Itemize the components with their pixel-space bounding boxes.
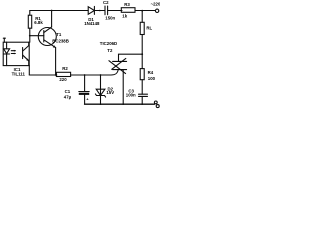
svg-text:R3: R3: [124, 2, 130, 7]
wire T1 emitter: [44, 40, 56, 48]
wire top rail left segment: [30, 11, 88, 16]
resistor R3: [121, 8, 135, 13]
wire RL to R4 rail: [141, 35, 143, 69]
svg-text:BC238B: BC238B: [52, 38, 69, 43]
wire opto emitter lead: [28, 66, 30, 75]
transistor T2 triac: [113, 60, 127, 62]
wire RL top lead: [141, 11, 143, 23]
svg-text:1k: 1k: [122, 13, 127, 18]
diode D2 zener: [100, 75, 102, 104]
wire triac gate curve: [111, 70, 118, 75]
svg-text:C2: C2: [103, 0, 109, 5]
wire R1 bottom lead: [29, 28, 31, 36]
node MT2 junction: [141, 53, 143, 55]
node mains junction: [141, 10, 143, 12]
svg-text:1N4148: 1N4148: [84, 21, 100, 26]
node C1 junction: [84, 74, 86, 76]
svg-text:+: +: [86, 97, 89, 102]
wire light arrows: [11, 50, 15, 52]
svg-text:TIC206D: TIC206D: [100, 41, 117, 46]
resistor RL: [140, 22, 144, 34]
node T1 emitter junction: [55, 74, 57, 76]
op-amp IC1 optocoupler box: [3, 42, 29, 65]
wire triac MT1 to rail: [122, 70, 124, 105]
wire W emitter rail: [29, 74, 57, 76]
node D2 rail junction: [100, 103, 102, 105]
wire opto collector lead: [29, 36, 31, 43]
svg-text:RL: RL: [146, 26, 152, 31]
wire R4 to C3: [141, 80, 143, 95]
svg-text:47µ: 47µ: [64, 94, 72, 99]
diode LED inside IC1: [6, 42, 8, 49]
svg-text:R2: R2: [62, 66, 68, 71]
node T1 collector junction: [51, 10, 53, 12]
resistor R1: [28, 15, 31, 28]
svg-text:220: 220: [59, 77, 67, 82]
svg-text:T1: T1: [56, 32, 62, 37]
svg-text:TIL111: TIL111: [12, 72, 26, 77]
resistor R4: [140, 69, 144, 80]
transistor T1: [38, 28, 56, 46]
capacitor C1 electrolytic: [84, 75, 86, 92]
svg-text:6.8k: 6.8k: [34, 20, 43, 25]
wire W right segment: [71, 74, 111, 76]
svg-text:~220V: ~220V: [151, 1, 160, 6]
wire top rail R3 to terminal: [135, 10, 155, 12]
wire bottom rail: [85, 103, 155, 105]
terminal mains bottom A: [154, 101, 157, 104]
terminal mains top: [155, 9, 158, 12]
diode D1: [88, 7, 94, 15]
svg-text:C1: C1: [65, 89, 71, 94]
node D2 top junction: [100, 74, 102, 76]
svg-text:150n: 150n: [105, 16, 115, 21]
svg-text:R4: R4: [148, 70, 154, 75]
svg-text:100: 100: [148, 76, 156, 81]
svg-text:15V: 15V: [106, 90, 114, 95]
wire top rail D1 to C2: [94, 10, 105, 12]
capacitor C3: [139, 93, 148, 95]
capacitor C2: [104, 6, 106, 15]
wire LED anode stub: [3, 37, 5, 39]
node MT1 rail junction: [122, 103, 124, 105]
wire base wire to T1: [30, 35, 44, 37]
svg-text:100n: 100n: [126, 92, 136, 97]
node dot D1-C2: [99, 10, 101, 12]
wire triac MT2 lead: [119, 54, 143, 61]
resistor R2: [56, 72, 70, 76]
node C3 rail junction: [141, 103, 143, 105]
svg-text:T2: T2: [107, 48, 113, 53]
wire T1 collector lead: [51, 11, 53, 28]
transistor phototransistor inside IC1: [22, 48, 24, 59]
wire top rail C2 to R3: [108, 10, 122, 12]
terminal mains bottom B: [156, 105, 159, 108]
node base junction: [29, 35, 31, 37]
